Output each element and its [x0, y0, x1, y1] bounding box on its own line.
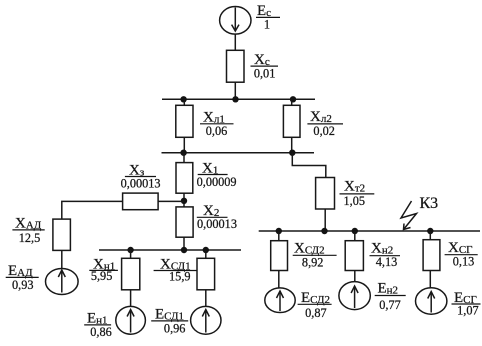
label Xc [251, 52, 279, 81]
svg-text:0,00013: 0,00013 [197, 217, 237, 231]
node bus3-right [203, 247, 209, 253]
wire X3-to-node [158, 200, 184, 202]
label En1 [84, 311, 112, 340]
svg-text:4,13: 4,13 [376, 255, 398, 269]
label EAD [6, 263, 39, 292]
svg-text:К3: К3 [420, 195, 439, 212]
wire bus4-to-XSD2 [278, 231, 280, 241]
reactance Xt2 [316, 178, 335, 210]
svg-text:0,06: 0,06 [206, 124, 228, 138]
label X3 [121, 162, 161, 190]
reactance Xc [227, 50, 245, 82]
svg-text:0,96: 0,96 [164, 321, 186, 335]
svg-text:0,86: 0,86 [90, 325, 112, 339]
label ESG [452, 290, 481, 318]
bus 3 [99, 249, 241, 251]
svg-text:1,05: 1,05 [344, 194, 366, 208]
wire bus1-to-Xl1 [183, 99, 185, 105]
short-circuit lightning arrow K3 [401, 201, 417, 230]
svg-text:ХСД2: ХСД2 [294, 241, 325, 257]
wire XAD-to-EAD [61, 250, 63, 268]
svg-text:5,95: 5,95 [91, 269, 113, 283]
label En2 [375, 281, 406, 312]
bus 1 [162, 98, 315, 100]
reactance Xn2 [345, 241, 363, 271]
bus 4 [259, 230, 480, 232]
wire source-to-Xc [234, 34, 236, 50]
source ESG [416, 288, 447, 314]
wire bus2-to-X1 [183, 153, 185, 163]
wire X2-to-bus3 [183, 237, 185, 250]
reactance Xl2 [283, 105, 300, 137]
node bus4-4 [427, 228, 433, 234]
svg-text:Хт2: Хт2 [344, 179, 365, 195]
wire bus3-to-XSD1 [205, 250, 207, 258]
svg-text:0,87: 0,87 [305, 306, 327, 320]
wire Xc-to-bus1 [234, 82, 236, 99]
svg-text:Ен1: Ен1 [87, 311, 108, 327]
wire bus2-to-Xt2 elbow [292, 153, 326, 178]
svg-text:ХСГ: ХСГ [448, 240, 473, 256]
wire X1-to-node [183, 193, 185, 207]
svg-text:0,02: 0,02 [313, 124, 335, 138]
node bus1-right [290, 96, 296, 102]
wire X3-left-elbow [62, 201, 123, 219]
reactance XSD2 [271, 241, 288, 271]
wire Xt2-to-bus4 [324, 209, 326, 231]
svg-text:Хл2: Хл2 [310, 109, 332, 125]
source ESD1 [191, 306, 221, 334]
reactance XSG [423, 240, 440, 271]
reactance Xn1 [122, 258, 140, 290]
node bus2-right [289, 150, 295, 156]
reactance X3 (horizontal) [123, 193, 159, 210]
node bus1-mid [232, 96, 238, 102]
source En2 [339, 282, 370, 310]
wire bus1-to-Xl2 [291, 99, 293, 105]
node bus4-2 [321, 228, 327, 234]
svg-text:1,07: 1,07 [457, 304, 479, 318]
node bus3-mid [181, 247, 187, 253]
reactance XSD1 [197, 258, 215, 290]
bus 2 [162, 152, 315, 154]
svg-text:ЕСД2: ЕСД2 [301, 290, 330, 306]
node bus4-1 [276, 228, 282, 234]
label XSD2 [293, 241, 337, 270]
label ESD2 [298, 290, 332, 320]
label X1 [197, 161, 237, 190]
label XSD1 [154, 256, 198, 283]
reactance X1 [176, 163, 193, 194]
node bus3-left [127, 247, 133, 253]
svg-text:8,92: 8,92 [302, 256, 324, 270]
wire bus3-to-Xn1 [130, 250, 132, 258]
svg-text:12,5: 12,5 [19, 231, 41, 245]
svg-text:0,93: 0,93 [12, 278, 34, 292]
label ESD1 [151, 307, 188, 336]
svg-text:15,9: 15,9 [169, 269, 191, 283]
label Xn1 [89, 256, 118, 283]
wire XSG-to-ESG [429, 271, 431, 288]
svg-text:1: 1 [264, 17, 270, 31]
svg-text:0,13: 0,13 [453, 255, 475, 269]
reactance X2 [176, 207, 193, 237]
source En1 [116, 306, 146, 334]
svg-text:0,00013: 0,00013 [121, 177, 161, 191]
label Xl2 [307, 109, 343, 138]
label Xt2 [340, 179, 375, 209]
node bus1-left [180, 96, 186, 102]
svg-text:0,01: 0,01 [254, 67, 276, 81]
source EAD [46, 269, 79, 295]
node X1-X2 [181, 198, 187, 204]
reactance XAD [53, 219, 71, 250]
wire bus4-to-Xn2 [354, 231, 356, 241]
svg-text:ХАД: ХАД [15, 216, 42, 232]
svg-text:0,00009: 0,00009 [197, 175, 237, 189]
wire bus4-to-XSG [429, 231, 431, 240]
svg-text:Хн2: Хн2 [371, 241, 393, 257]
label Xl1 [200, 110, 234, 138]
wire XSD2-to-ESD2 [278, 271, 280, 288]
wire Xl1-to-bus2 [183, 137, 185, 152]
label XSG [445, 240, 478, 269]
label Ec [256, 3, 280, 31]
node bus4-3 [352, 228, 358, 234]
svg-text:0,77: 0,77 [379, 298, 401, 312]
label Xn2 [370, 241, 401, 270]
svg-text:ЕАД: ЕАД [8, 263, 33, 279]
label X2 [197, 203, 237, 231]
wire Xn2-to-En2 [354, 271, 356, 282]
wire XSD1-to-ESD1 [205, 290, 207, 307]
wire Xn1-to-En1 [130, 290, 132, 307]
source ESD2 [265, 288, 295, 313]
label XAD [12, 216, 44, 246]
reactance Xl1 [176, 105, 193, 137]
svg-text:Ен2: Ен2 [378, 281, 399, 297]
node bus2-left [180, 150, 186, 156]
wire Xl2-to-bus2 [291, 137, 293, 152]
source Ec [220, 6, 251, 34]
